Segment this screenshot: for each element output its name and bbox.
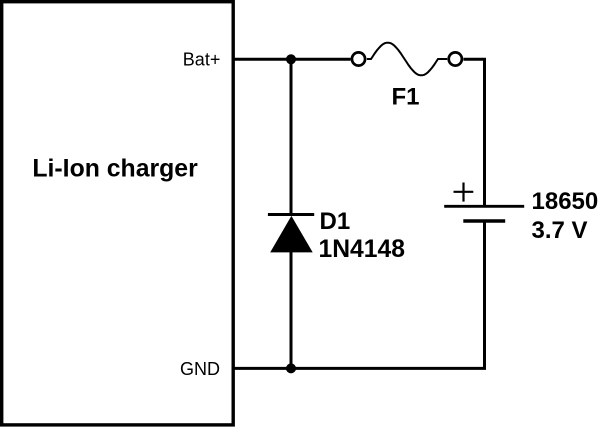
wire diode to GND junction — [290, 252, 293, 368]
node junction dot on GND wire — [286, 363, 296, 373]
svg-text:GND: GND — [180, 359, 220, 379]
svg-text:Bat+: Bat+ — [183, 50, 221, 70]
battery short plate (-) — [463, 219, 505, 222]
node junction dot on Bat+ wire — [286, 54, 296, 64]
Li-Ion charger box — [2, 2, 234, 425]
diode D1 triangle — [270, 216, 313, 253]
fuse F1 left terminal circle — [352, 52, 365, 65]
battery plus sign — [454, 191, 474, 193]
wire Bat+ from box to fuse — [233, 58, 351, 61]
fuse F1 right terminal circle — [449, 52, 462, 65]
wire battery to GND (corner) — [233, 221, 485, 368]
wire Bat+ junction down to diode — [290, 59, 293, 214]
svg-text:Li-Ion charger: Li-Ion charger — [32, 156, 198, 183]
fuse F1 wave element — [367, 43, 447, 76]
diode D1 cathode bar — [268, 213, 314, 216]
svg-text:D1: D1 — [320, 208, 351, 235]
svg-text:F1: F1 — [392, 83, 420, 110]
wire fuse to battery top (corner) — [464, 59, 485, 206]
svg-text:1N4148: 1N4148 — [319, 236, 405, 263]
battery long plate (+) — [444, 205, 524, 208]
svg-text:3.7 V: 3.7 V — [532, 217, 588, 244]
svg-text:18650: 18650 — [532, 188, 599, 215]
